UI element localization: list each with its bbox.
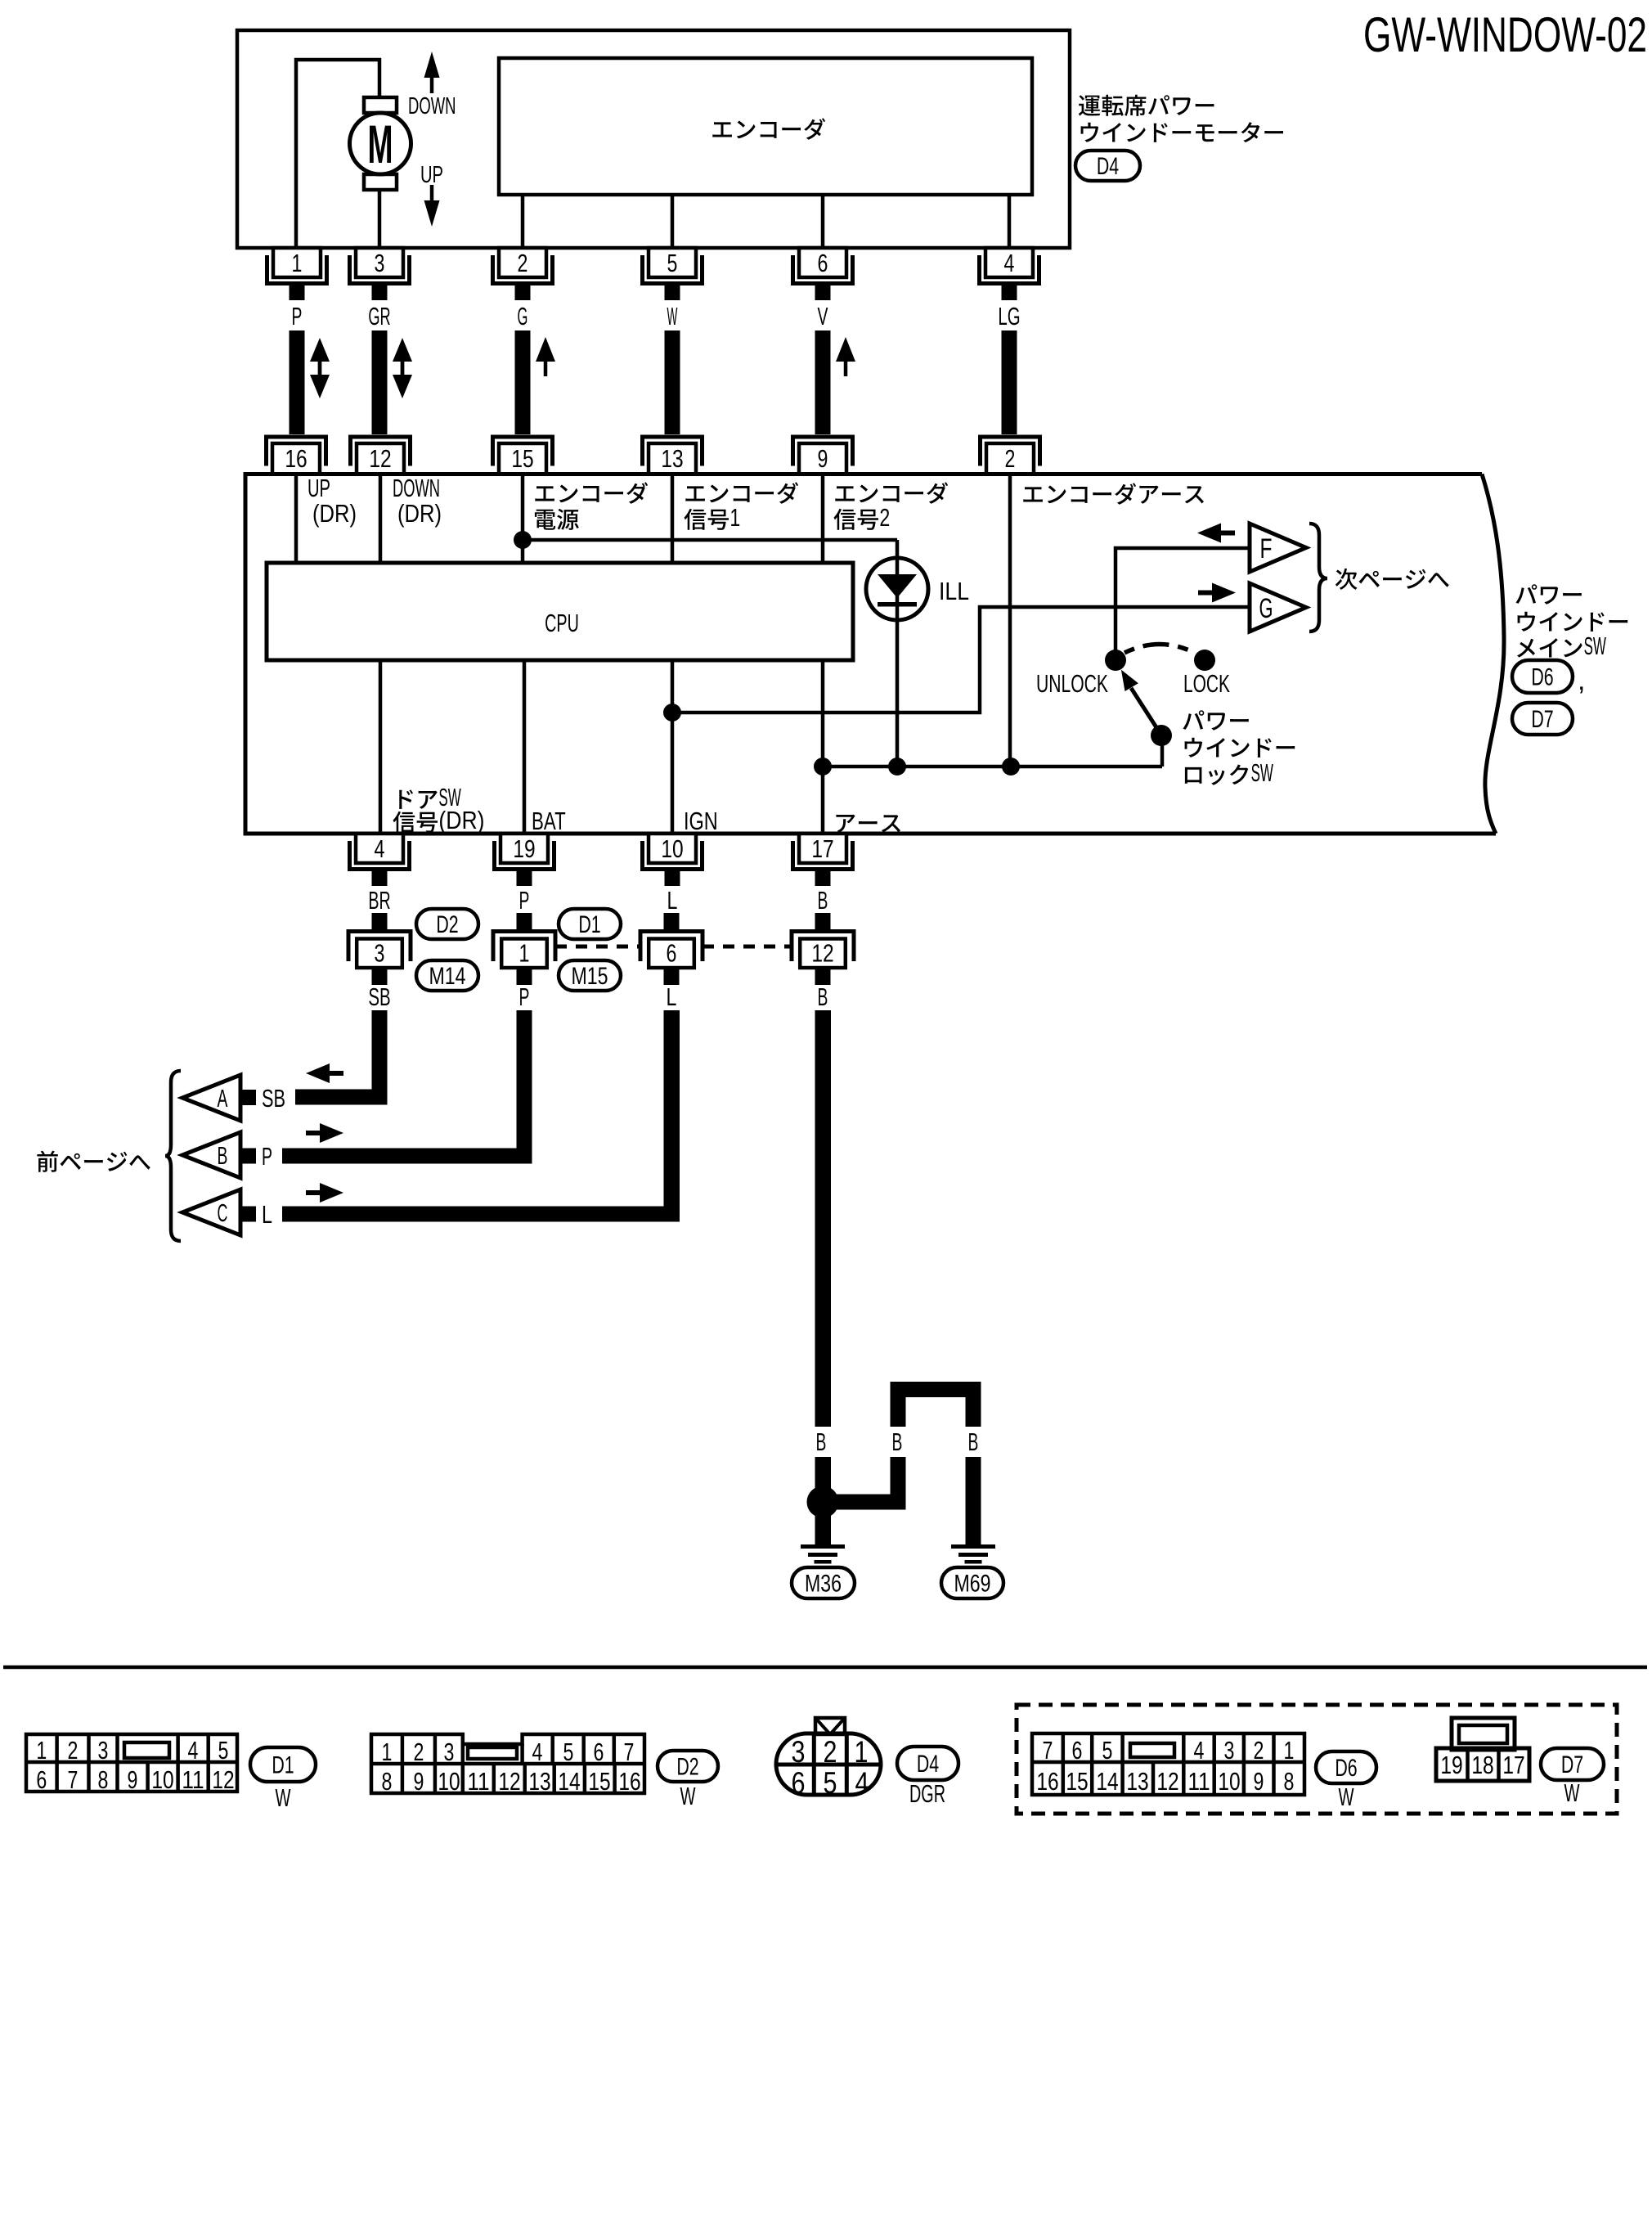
svg-text:M69: M69 [954, 1571, 991, 1598]
svg-text:L: L [667, 982, 677, 1011]
svg-text:19: 19 [513, 834, 535, 863]
svg-text:2: 2 [1005, 444, 1016, 473]
svg-text:9: 9 [128, 1765, 138, 1794]
svg-text:P: P [292, 302, 303, 330]
svg-text:9: 9 [818, 444, 828, 473]
svg-text:1: 1 [36, 1736, 47, 1765]
svg-text:3: 3 [375, 249, 385, 277]
svg-text:12: 12 [1156, 1767, 1178, 1796]
svg-text:6: 6 [1072, 1736, 1083, 1765]
svg-text:6: 6 [818, 249, 828, 277]
svg-text:G: G [1259, 593, 1273, 624]
svg-text:LOCK: LOCK [1183, 669, 1230, 698]
svg-text:10: 10 [438, 1767, 460, 1796]
svg-text:4: 4 [532, 1738, 543, 1766]
svg-text:6: 6 [36, 1765, 47, 1794]
svg-text:12: 12 [811, 939, 833, 968]
svg-text:14: 14 [558, 1767, 580, 1796]
svg-text:13: 13 [1126, 1767, 1148, 1796]
svg-text:8: 8 [1284, 1767, 1295, 1796]
svg-text:W: W [667, 302, 678, 330]
svg-text:W: W [1564, 1778, 1580, 1807]
svg-text:5: 5 [667, 249, 678, 277]
svg-text:4: 4 [1004, 249, 1015, 277]
svg-text:D1: D1 [578, 911, 600, 938]
svg-text:ILL: ILL [939, 577, 969, 605]
svg-text:GW-WINDOW-02: GW-WINDOW-02 [1363, 7, 1647, 62]
svg-text:3: 3 [98, 1736, 109, 1765]
svg-text:19: 19 [1440, 1751, 1462, 1779]
svg-text:5: 5 [563, 1738, 574, 1766]
svg-text:IGN: IGN [684, 807, 718, 835]
svg-text:11: 11 [1187, 1767, 1210, 1796]
svg-text:9: 9 [414, 1767, 424, 1796]
svg-text:D2: D2 [676, 1754, 698, 1781]
svg-text:B: B [968, 1427, 979, 1456]
svg-text:6: 6 [594, 1738, 604, 1766]
svg-text:9: 9 [1254, 1767, 1264, 1796]
svg-text:UNLOCK: UNLOCK [1036, 669, 1108, 698]
svg-text:BAT: BAT [532, 807, 566, 835]
svg-text:4: 4 [855, 1766, 869, 1800]
svg-text:GR: GR [368, 302, 390, 330]
svg-text:BR: BR [368, 886, 390, 915]
svg-text:M15: M15 [572, 963, 608, 990]
svg-text:6: 6 [667, 939, 677, 968]
svg-text:SB: SB [262, 1084, 285, 1113]
svg-text:11: 11 [467, 1767, 489, 1796]
svg-text:13: 13 [661, 444, 683, 473]
svg-text:D1: D1 [272, 1752, 294, 1779]
svg-text:5: 5 [824, 1766, 837, 1800]
svg-text:B: B [818, 982, 828, 1011]
svg-text:B: B [818, 886, 828, 915]
svg-text:2: 2 [414, 1738, 424, 1766]
svg-text:CPU: CPU [545, 609, 579, 637]
svg-text:1: 1 [729, 503, 740, 532]
svg-text:LG: LG [998, 302, 1020, 330]
svg-text:2: 2 [1254, 1736, 1264, 1765]
svg-text:16: 16 [285, 444, 307, 473]
svg-text:16: 16 [1036, 1767, 1058, 1796]
svg-text:2: 2 [518, 249, 528, 277]
svg-text:D7: D7 [1531, 706, 1553, 733]
svg-text:D7: D7 [1561, 1751, 1583, 1778]
svg-text:DGR: DGR [909, 1779, 945, 1808]
svg-text:P: P [262, 1142, 272, 1171]
svg-text:(DR): (DR) [312, 499, 357, 528]
svg-text:7: 7 [68, 1765, 79, 1794]
svg-text:17: 17 [811, 834, 833, 863]
svg-text:(DR): (DR) [438, 806, 484, 834]
svg-text:UP: UP [308, 474, 330, 502]
svg-text:8: 8 [382, 1767, 393, 1796]
svg-text:13: 13 [528, 1767, 550, 1796]
svg-text:4: 4 [188, 1736, 199, 1765]
svg-text:7: 7 [1043, 1736, 1053, 1765]
svg-text:1: 1 [519, 939, 530, 968]
svg-text:2: 2 [879, 503, 890, 532]
svg-text:G: G [518, 302, 528, 330]
svg-text:V: V [818, 302, 828, 330]
svg-text:8: 8 [98, 1765, 109, 1794]
svg-text:W: W [276, 1783, 291, 1812]
svg-text:3: 3 [792, 1735, 806, 1769]
svg-text:W: W [680, 1782, 696, 1810]
svg-text:3: 3 [1224, 1736, 1235, 1765]
svg-text:F: F [1260, 533, 1273, 564]
svg-text:L: L [667, 886, 678, 915]
svg-text:11: 11 [182, 1765, 204, 1794]
svg-text:10: 10 [661, 834, 683, 863]
svg-text:D4: D4 [917, 1751, 939, 1778]
svg-text:P: P [519, 982, 530, 1011]
svg-text:1: 1 [855, 1735, 869, 1769]
svg-text:P: P [519, 886, 530, 915]
svg-text:D4: D4 [1097, 153, 1119, 180]
svg-text:B: B [218, 1141, 228, 1170]
svg-text:15: 15 [1066, 1767, 1088, 1796]
svg-text:B: B [816, 1427, 827, 1456]
svg-text:SW: SW [1584, 632, 1607, 660]
svg-text:14: 14 [1096, 1767, 1118, 1796]
svg-text:15: 15 [511, 444, 533, 473]
svg-text:12: 12 [212, 1765, 234, 1794]
svg-text:1: 1 [382, 1738, 393, 1766]
svg-text:W: W [1339, 1783, 1354, 1811]
svg-text:A: A [218, 1084, 228, 1113]
svg-text:D6: D6 [1531, 664, 1553, 691]
svg-text:5: 5 [218, 1736, 229, 1765]
svg-text:10: 10 [151, 1765, 173, 1794]
svg-text:15: 15 [588, 1767, 610, 1796]
svg-text:4: 4 [375, 834, 385, 863]
svg-text:3: 3 [444, 1738, 455, 1766]
svg-text:12: 12 [369, 444, 391, 473]
svg-text:2: 2 [68, 1736, 79, 1765]
svg-text:1: 1 [1284, 1736, 1295, 1765]
svg-text:6: 6 [792, 1766, 806, 1800]
svg-text:17: 17 [1502, 1751, 1524, 1779]
svg-text:,: , [1578, 665, 1585, 696]
svg-text:2: 2 [824, 1735, 837, 1769]
svg-text:18: 18 [1471, 1751, 1493, 1779]
svg-text:SW: SW [1251, 758, 1274, 787]
svg-text:M: M [368, 114, 393, 174]
svg-text:C: C [218, 1198, 228, 1227]
svg-text:D6: D6 [1335, 1755, 1357, 1782]
svg-text:1: 1 [292, 249, 303, 277]
svg-text:5: 5 [1102, 1736, 1113, 1765]
svg-text:12: 12 [498, 1767, 520, 1796]
svg-text:DOWN: DOWN [393, 474, 440, 502]
svg-text:7: 7 [624, 1738, 635, 1766]
svg-text:D2: D2 [436, 911, 458, 938]
svg-text:L: L [262, 1200, 272, 1229]
svg-text:M14: M14 [429, 963, 466, 990]
svg-text:(DR): (DR) [397, 499, 442, 528]
svg-text:DOWN: DOWN [408, 93, 456, 119]
svg-text:4: 4 [1194, 1736, 1205, 1765]
svg-text:3: 3 [375, 939, 385, 968]
svg-text:10: 10 [1218, 1767, 1240, 1796]
svg-text:M36: M36 [805, 1571, 842, 1598]
svg-text:16: 16 [618, 1767, 640, 1796]
svg-text:UP: UP [420, 162, 443, 188]
svg-text:SB: SB [368, 982, 390, 1011]
svg-text:B: B [892, 1427, 903, 1456]
